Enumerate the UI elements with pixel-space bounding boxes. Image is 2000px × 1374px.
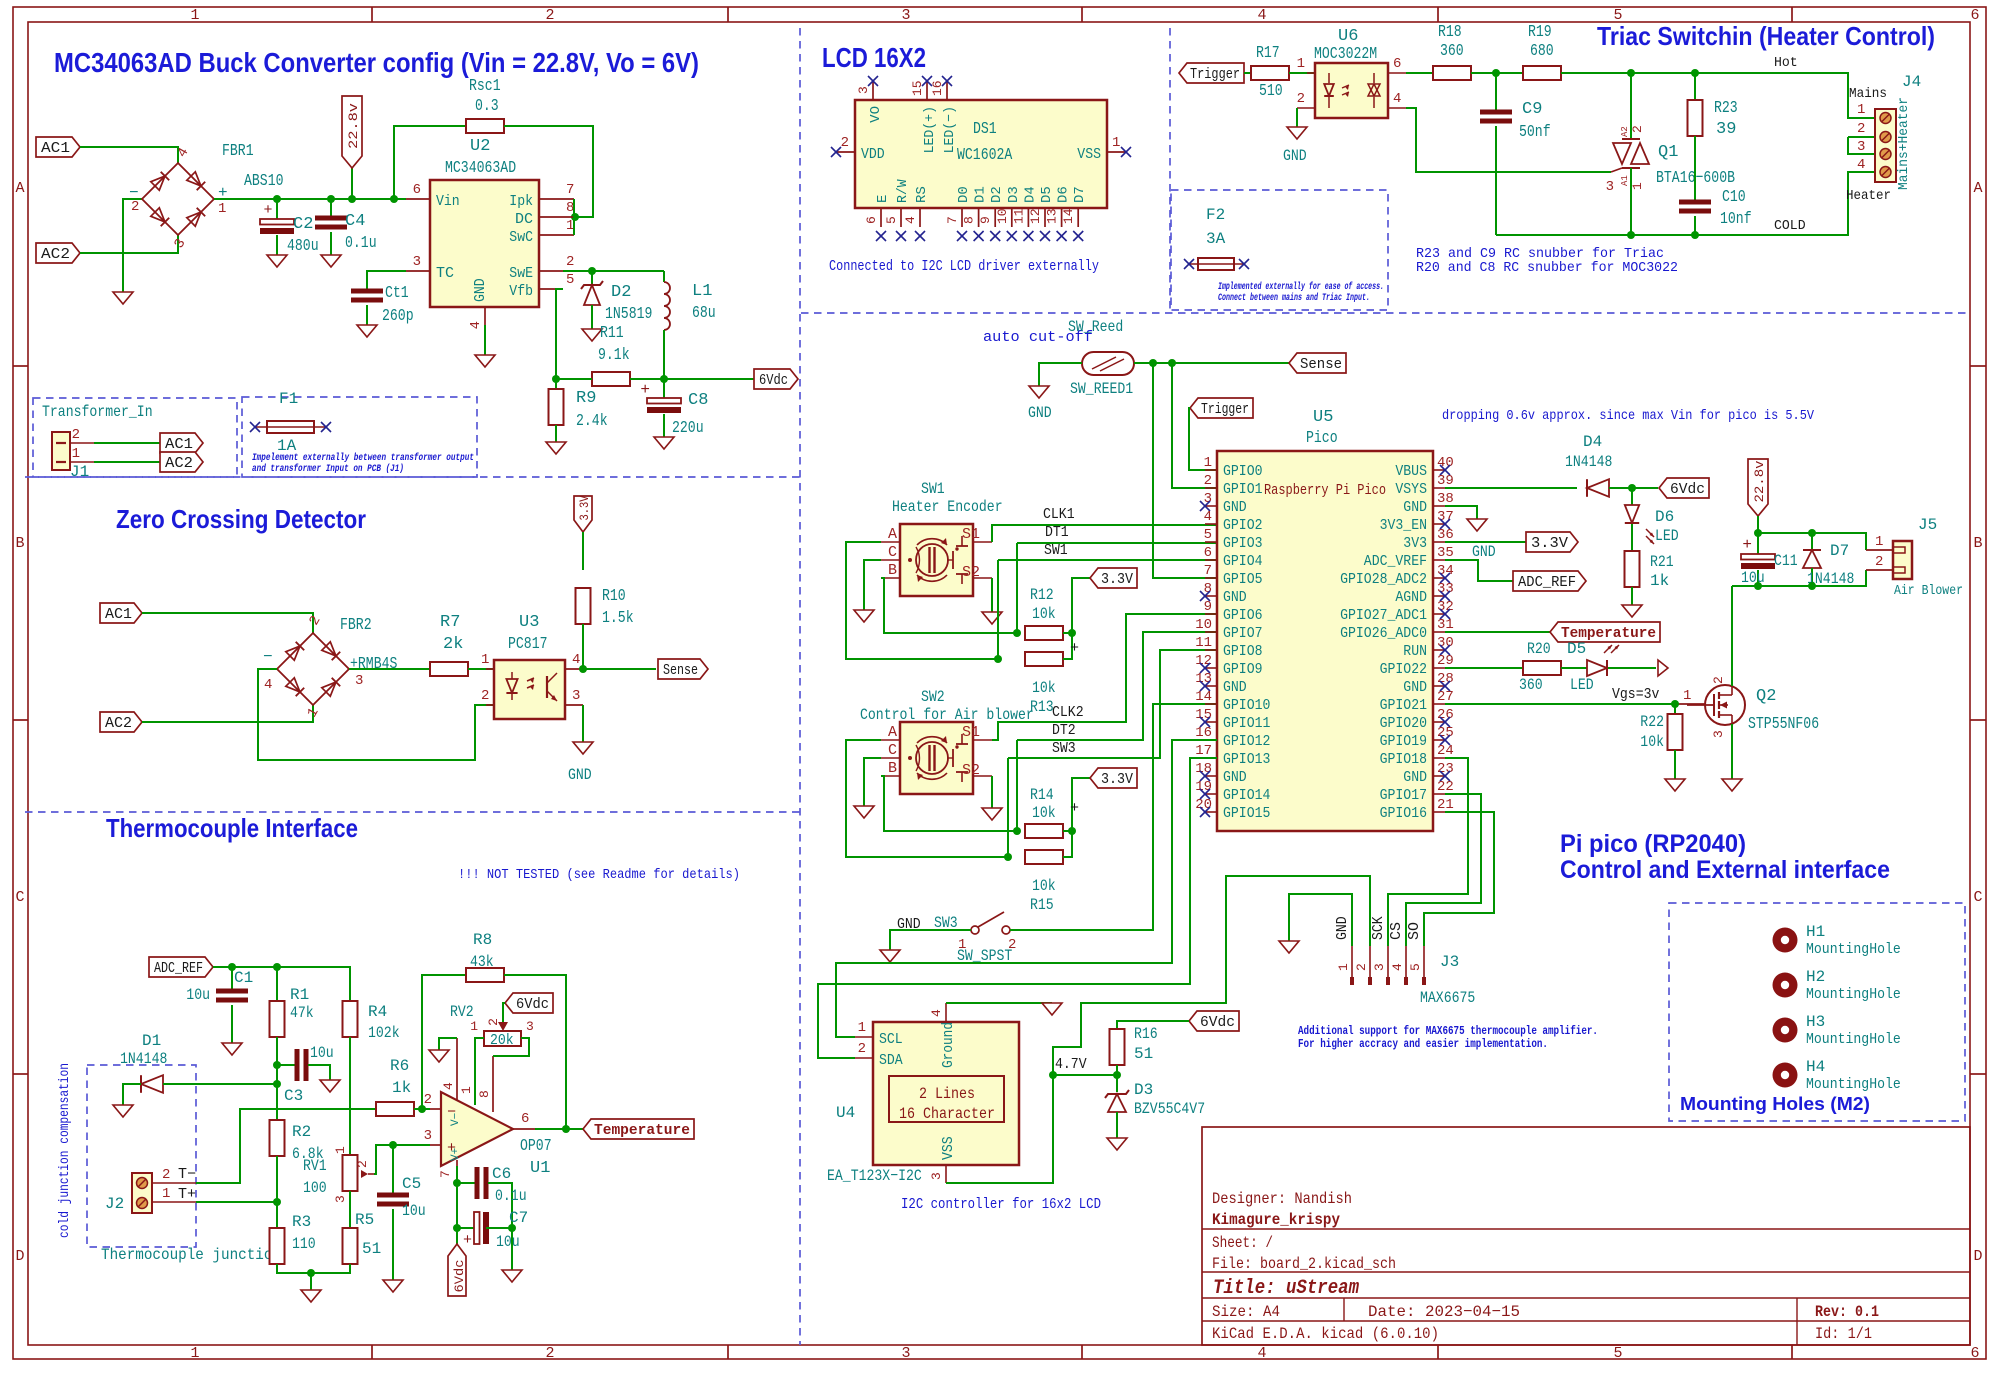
net label 6Vdc buck output [754, 369, 798, 389]
svg-text:LED: LED [1570, 676, 1594, 694]
ground D3 [1107, 1138, 1127, 1150]
svg-text:D: D [1973, 1248, 1982, 1265]
resistor R17 510 [1251, 44, 1289, 101]
wire S2 to gnd sw1 [991, 578, 993, 612]
svg-text:+: + [1742, 536, 1752, 554]
rotary encoder SW2 [860, 688, 1034, 794]
fuse F2 3A [1184, 206, 1249, 270]
svg-text:51: 51 [1134, 1045, 1153, 1063]
svg-text:3: 3 [572, 688, 580, 704]
svg-text:8: 8 [1204, 581, 1212, 597]
ground U4 [1042, 1003, 1062, 1015]
reed switch SW_REED1 [1068, 318, 1134, 398]
svg-text:U5: U5 [1313, 408, 1333, 427]
capacitor C8 220u [640, 379, 708, 438]
svg-text:1: 1 [459, 1086, 474, 1094]
capacitor C7 10u [457, 1209, 528, 1251]
wire DT2 to R14 [1016, 740, 1018, 831]
svg-text:+: + [1070, 640, 1079, 657]
svg-text:2: 2 [1204, 473, 1212, 489]
svg-text:11: 11 [1195, 635, 1212, 651]
svg-text:S1: S1 [962, 526, 980, 543]
svg-text:9.1k: 9.1k [598, 346, 630, 365]
svg-text:10u: 10u [310, 1044, 334, 1062]
ic U6 MOC3022M body [1314, 27, 1388, 118]
wire cold rail [1496, 172, 1875, 235]
wire J3 pin3 sck [1388, 758, 1468, 946]
wire DT1 to R12 [1016, 543, 1018, 633]
svg-text:Transformer_In: Transformer_In [42, 403, 153, 421]
power symbol 22.8v buck [342, 96, 362, 199]
U5 pin 24 GPIO18 [1380, 743, 1454, 768]
svg-text:Id: 1/1: Id: 1/1 [1815, 1325, 1872, 1343]
svg-text:SwC: SwC [509, 229, 533, 246]
svg-text:F1: F1 [279, 390, 298, 408]
U1 pin8 offset [477, 1056, 493, 1112]
wire reed sense net [1134, 362, 1289, 364]
svg-text:8: 8 [477, 1090, 492, 1098]
svg-text:4: 4 [1204, 509, 1212, 525]
svg-text:Connected to I2C LCD driver ex: Connected to I2C LCD driver externally [829, 258, 1099, 275]
svg-text:C: C [888, 742, 897, 759]
dashed box thermocouple junction [87, 1065, 196, 1247]
resistor R6 1k [376, 1057, 414, 1116]
svg-text:Pico: Pico [1306, 429, 1338, 448]
svg-text:31: 31 [1437, 617, 1454, 633]
svg-text:C9: C9 [1522, 100, 1542, 119]
svg-text:6: 6 [1970, 7, 1979, 24]
svg-text:16 Character: 16 Character [899, 1105, 995, 1123]
svg-text:6: 6 [521, 1111, 529, 1127]
svg-text:SW_Reed: SW_Reed [1068, 318, 1123, 336]
svg-text:R20: R20 [1527, 640, 1551, 658]
svg-text:4: 4 [468, 321, 484, 329]
svg-text:1k: 1k [1650, 572, 1669, 590]
svg-text:SW3: SW3 [1052, 740, 1076, 757]
U5 pin 1 GPIO0 [1204, 455, 1263, 480]
svg-text:3: 3 [1372, 963, 1387, 971]
resistor Rsc1 0.3 [466, 77, 504, 133]
zener diode D2 1N5819 [581, 271, 652, 329]
svg-text:2: 2 [72, 427, 80, 443]
wire AC1 to bridge [80, 147, 178, 163]
resistor R11 9.1k [556, 324, 664, 386]
svg-text:VSYS: VSYS [1395, 481, 1427, 498]
svg-text:1.5k: 1.5k [602, 609, 634, 628]
svg-text:AC2: AC2 [165, 455, 193, 472]
svg-text:50nf: 50nf [1519, 123, 1551, 142]
capacitor C1 10u [186, 967, 253, 1043]
svg-text:16: 16 [1195, 725, 1212, 741]
svg-text:C: C [15, 889, 24, 906]
power symbol 6Vdc opamp [448, 1244, 467, 1296]
net label AC1 zcd [100, 603, 142, 623]
svg-text:GND: GND [1472, 543, 1496, 561]
svg-text:SW2: SW2 [921, 688, 945, 706]
svg-text:AGND: AGND [1395, 589, 1427, 606]
svg-text:!!! NOT TESTED (see Readme for: !!! NOT TESTED (see Readme for details) [458, 867, 740, 883]
svg-text:SW1: SW1 [1044, 542, 1068, 559]
junction R14 left [1013, 827, 1021, 835]
ground SW1 C [854, 610, 874, 622]
svg-text:SW_REED1: SW_REED1 [1070, 380, 1133, 398]
U2 pin5 Vfb [509, 272, 574, 300]
svg-text:KiCad E.D.A. kicad (6.0.10): KiCad E.D.A. kicad (6.0.10) [1212, 1325, 1439, 1343]
svg-text:D3: D3 [1134, 1081, 1153, 1099]
ic U4 EA_T123X-I2C body [827, 1022, 1019, 1185]
svg-text:H4: H4 [1806, 1058, 1825, 1076]
junction reed gpio5 branch [1149, 359, 1157, 367]
svg-text:D2: D2 [611, 283, 631, 302]
junction Q1 bottom [1627, 231, 1635, 239]
U5 pin 25 GPIO19 [1380, 725, 1454, 750]
DS1 pin D5 [1028, 186, 1055, 241]
svg-text:R12: R12 [1030, 586, 1054, 604]
svg-text:Title: uStream: Title: uStream [1213, 1277, 1359, 1300]
svg-text:0.3: 0.3 [475, 97, 499, 116]
svg-text:3V3_EN: 3V3_EN [1380, 517, 1427, 534]
U3 internal led and transistor [506, 672, 557, 701]
svg-text:GPIO15: GPIO15 [1223, 805, 1270, 822]
svg-text:3: 3 [856, 86, 871, 94]
svg-text:1N4148: 1N4148 [120, 1050, 167, 1068]
svg-text:10nf: 10nf [1720, 210, 1752, 229]
wire Vin to Rsc1 [394, 126, 466, 199]
svg-text:2k: 2k [443, 635, 463, 654]
svg-text:S1: S1 [962, 724, 980, 741]
wire A to R15 [846, 740, 1008, 857]
ground U1 pin4 [429, 1050, 449, 1062]
svg-text:+: + [263, 202, 272, 219]
junction sense node [579, 665, 587, 673]
svg-text:C3: C3 [284, 1087, 303, 1105]
svg-text:10u: 10u [402, 1202, 426, 1220]
zener diode D3 BZV55C4V7 [1105, 1075, 1205, 1138]
svg-text:C8: C8 [688, 391, 708, 410]
U1 pin4 V- [441, 1038, 457, 1100]
junction C3 top [273, 1061, 281, 1069]
U5 pin 35 ADC_VREF [1364, 545, 1454, 570]
svg-text:4: 4 [264, 677, 272, 693]
svg-text:MC34063AD: MC34063AD [445, 159, 516, 178]
svg-text:3: 3 [333, 1195, 348, 1203]
svg-text:3: 3 [1606, 179, 1614, 195]
U5 pin 6 GPIO4 [1204, 545, 1263, 570]
svg-text:V−: V− [450, 1113, 462, 1126]
svg-text:WC1602A: WC1602A [957, 146, 1013, 165]
svg-text:14: 14 [1195, 689, 1212, 705]
net label Trigger triac [1179, 63, 1244, 83]
svg-text:Vin: Vin [436, 193, 460, 210]
svg-text:6: 6 [413, 182, 421, 198]
wire T+ to divider [196, 1201, 277, 1203]
wire S1 to CLK2 [992, 614, 1217, 740]
svg-text:H3: H3 [1806, 1013, 1825, 1031]
svg-text:GND: GND [1403, 679, 1427, 696]
svg-text:Sense: Sense [1300, 356, 1342, 373]
wire R7 to U3 [468, 668, 494, 670]
svg-text:260p: 260p [382, 307, 414, 326]
ground Q2 [1722, 779, 1742, 791]
svg-text:1: 1 [1857, 102, 1865, 118]
wire R8 feedback right [504, 975, 566, 1129]
svg-text:C10: C10 [1722, 188, 1746, 207]
svg-text:SW1: SW1 [921, 480, 945, 498]
DS1 pin D1 [962, 186, 989, 241]
svg-text:D7: D7 [1072, 186, 1088, 203]
wire main input rail [214, 198, 406, 200]
wire U6 pin2 gnd [1296, 108, 1298, 127]
net label ADC_REF pico [1513, 571, 1586, 591]
svg-text:DC: DC [515, 211, 533, 228]
svg-text:C1: C1 [234, 969, 253, 987]
svg-text:39: 39 [1716, 120, 1736, 139]
U5 pin 14 GPIO10 [1195, 689, 1270, 714]
svg-text:1: 1 [190, 7, 199, 24]
svg-text:Rev: 0.1: Rev: 0.1 [1815, 1303, 1879, 1321]
svg-text:11: 11 [1011, 208, 1026, 224]
svg-text:Size: A4: Size: A4 [1212, 1303, 1280, 1321]
resistor R13 10k [1025, 652, 1063, 716]
wire pin31 temperature [1445, 631, 1550, 633]
ground C1 [222, 1043, 242, 1055]
svg-text:10k: 10k [1032, 877, 1056, 895]
U5 pin 21 GPIO16 [1380, 797, 1454, 822]
U5 pin 10 GPIO7 [1195, 617, 1262, 642]
svg-text:Kimagure_krispy: Kimagure_krispy [1212, 1211, 1340, 1229]
DS1 pin D0 [945, 186, 972, 241]
junction adcref R1 [273, 963, 281, 971]
ground R9 [546, 442, 566, 454]
U5 pin 12 GPIO9 [1195, 653, 1262, 678]
svg-text:D6: D6 [1655, 508, 1674, 526]
svg-text:B: B [1973, 535, 1982, 552]
U5 pin 20 GPIO15 [1195, 797, 1270, 822]
svg-text:2: 2 [162, 1167, 170, 1183]
svg-text:+RMB4S: +RMB4S [350, 655, 397, 674]
svg-text:V+: V+ [450, 1148, 462, 1161]
svg-text:4: 4 [1390, 963, 1405, 971]
svg-text:R3: R3 [292, 1213, 311, 1231]
svg-text:Hot: Hot [1774, 55, 1798, 71]
junction C10 bottom [1691, 231, 1699, 239]
svg-text:1k: 1k [392, 1079, 411, 1097]
svg-text:File: board_2.kicad_sch: File: board_2.kicad_sch [1212, 1255, 1396, 1273]
svg-text:Sheet: /: Sheet: / [1212, 1234, 1273, 1252]
net label Sense zcd [658, 659, 708, 679]
junction D7 bottom [1808, 582, 1816, 590]
svg-text:2: 2 [1875, 554, 1883, 570]
svg-text:360: 360 [1440, 42, 1464, 61]
wire pin4 gnd [439, 1038, 457, 1050]
svg-text:Ipk: Ipk [509, 193, 533, 210]
diode D1 1N4148 [120, 1032, 277, 1105]
svg-text:13: 13 [1045, 208, 1060, 224]
svg-text:GPIO7: GPIO7 [1223, 625, 1263, 642]
svg-text:39: 39 [1437, 473, 1454, 489]
svg-text:102k: 102k [368, 1024, 400, 1042]
svg-text:MountingHole: MountingHole [1806, 1076, 1901, 1093]
ground D1 [113, 1105, 133, 1117]
wire pin36 3v3 [1445, 541, 1526, 543]
wire U2 gnd [484, 325, 486, 355]
svg-text:AC2: AC2 [41, 246, 70, 263]
svg-text:RV1: RV1 [303, 1157, 327, 1175]
junction R13 left [994, 655, 1002, 663]
U2 pin7 Ipk [509, 182, 574, 210]
svg-text:Thermocouple Interface: Thermocouple Interface [106, 813, 358, 843]
U5 pin 34 GPIO28_ADC2 [1340, 563, 1454, 588]
svg-text:A: A [15, 180, 24, 197]
svg-text:R6: R6 [390, 1057, 409, 1075]
ground pico pin38 [1467, 519, 1487, 531]
junction R12 left [1013, 629, 1021, 637]
svg-text:220u: 220u [672, 419, 704, 438]
bridge rectifier FBR1 [129, 145, 228, 251]
svg-text:C6: C6 [492, 1165, 511, 1183]
wire pin29 to R20 [1445, 667, 1523, 669]
ground SW2 C [854, 806, 874, 818]
svg-text:J4: J4 [1902, 73, 1921, 91]
U5 pin 13 GND [1195, 671, 1247, 696]
svg-text:GND: GND [1223, 589, 1247, 606]
svg-text:A: A [1973, 180, 1982, 197]
svg-text:2: 2 [481, 688, 489, 704]
svg-text:STP55NF06: STP55NF06 [1748, 715, 1819, 734]
svg-text:VBUS: VBUS [1395, 463, 1427, 480]
wire Vfb down [556, 289, 563, 379]
wire 6Vdc to RV2 wiper [498, 1003, 508, 1031]
svg-text:10: 10 [995, 208, 1010, 224]
svg-text:12: 12 [1028, 208, 1043, 224]
svg-text:C11: C11 [1774, 552, 1798, 570]
svg-text:Heater Encoder: Heater Encoder [892, 498, 1003, 516]
svg-text:AC1: AC1 [41, 140, 70, 157]
svg-text:dropping 0.6v approx. since ma: dropping 0.6v approx. since max Vin for … [1442, 408, 1815, 424]
DS1 pin D3 [995, 186, 1022, 241]
net label AC2 zcd [100, 712, 142, 732]
resistor R20 360 [1519, 640, 1561, 694]
connector J5 air blower [1866, 516, 1963, 599]
svg-text:GPIO12: GPIO12 [1223, 733, 1270, 750]
svg-text:D5: D5 [1567, 640, 1586, 658]
wire trigger to R17 [1244, 72, 1251, 74]
svg-text:2: 2 [841, 135, 849, 151]
svg-text:AC1: AC1 [165, 436, 193, 453]
wire pin35 adcvref [1445, 560, 1513, 581]
DS1 pin3 VO [856, 76, 884, 123]
ic U3 PC817 body [494, 613, 565, 719]
svg-text:D6: D6 [1056, 186, 1072, 203]
U6 pin4 [1388, 91, 1406, 108]
wire J3 pin5 so [1424, 812, 1494, 946]
svg-text:GPIO27_ADC1: GPIO27_ADC1 [1340, 607, 1427, 624]
DS1 pin2 VDD [831, 135, 885, 163]
capacitor Ct1 260p [351, 271, 414, 326]
svg-text:Date: 2023−04−15: Date: 2023−04−15 [1368, 1303, 1520, 1321]
svg-text:6: 6 [1970, 1345, 1979, 1362]
svg-text:2: 2 [566, 254, 574, 270]
svg-text:3: 3 [413, 254, 421, 270]
svg-text:68u: 68u [692, 304, 716, 323]
resistor R3 110 [270, 1213, 316, 1264]
net label ADC_REF thermo [149, 957, 213, 977]
svg-text:R23: R23 [1714, 99, 1738, 118]
svg-text:R16: R16 [1134, 1025, 1158, 1043]
wire R20 to D5 [1561, 667, 1587, 669]
svg-text:10k: 10k [1032, 804, 1056, 822]
svg-text:GPIO5: GPIO5 [1223, 571, 1263, 588]
svg-text:1: 1 [1683, 688, 1691, 704]
svg-text:−: − [129, 184, 139, 202]
svg-text:+: + [1070, 800, 1079, 817]
U2 pin1 SwC [509, 218, 574, 246]
wire C to gnd sw1 [864, 560, 881, 610]
junction C9 node [1492, 69, 1500, 77]
svg-text:Vgs=3v: Vgs=3v [1612, 686, 1659, 703]
U4 pin2 SDA [855, 1041, 903, 1069]
wire U3 pin3 gnd [582, 705, 584, 742]
svg-text:Raspberry Pi Pico: Raspberry Pi Pico [1264, 482, 1386, 499]
svg-text:GPIO2: GPIO2 [1223, 517, 1263, 534]
svg-text:GPIO8: GPIO8 [1223, 643, 1263, 660]
svg-text:R19: R19 [1528, 23, 1552, 42]
svg-text:B: B [15, 535, 24, 552]
title block frame [1202, 1127, 1970, 1345]
capacitor C2 480u [260, 199, 319, 256]
ground SW1 S2 [982, 612, 1002, 624]
junction R15 left [1004, 853, 1012, 861]
wire sense to gpio5 [1153, 363, 1217, 578]
svg-text:FBR1: FBR1 [222, 142, 254, 161]
svg-text:22: 22 [1437, 779, 1454, 795]
junction D1 node [273, 1080, 281, 1088]
wire SW1 to R13 [997, 560, 999, 659]
svg-text:GND: GND [1403, 499, 1427, 516]
svg-text:3.3V: 3.3V [1101, 771, 1133, 788]
svg-text:A2: A2 [1620, 126, 1630, 137]
svg-text:R1: R1 [290, 986, 309, 1004]
svg-text:GND: GND [1223, 499, 1247, 516]
svg-text:Sense: Sense [663, 662, 698, 679]
junction C7 node [453, 1224, 461, 1232]
svg-text:LED(+): LED(+) [922, 106, 938, 153]
svg-text:D0: D0 [956, 186, 972, 203]
svg-text:J3: J3 [1440, 953, 1459, 971]
U6 internal optotriac [1324, 73, 1380, 108]
junction bottom divider [307, 1269, 315, 1277]
wire SW3 to R15 junction [1007, 758, 1009, 857]
junction rail C2 [273, 195, 281, 203]
svg-text:GND: GND [1283, 147, 1307, 165]
svg-text:MountingHole: MountingHole [1806, 1031, 1901, 1048]
svg-text:SO: SO [1406, 922, 1423, 940]
wire C7 gnd [511, 1228, 513, 1270]
svg-text:21: 21 [1437, 797, 1454, 813]
svg-text:1: 1 [1336, 963, 1351, 971]
svg-text:A: A [888, 526, 897, 543]
wire pin7 down [456, 1166, 458, 1244]
wire Q2 source gnd [1731, 724, 1733, 779]
junction C11 bottom [1754, 582, 1762, 590]
svg-text:R15: R15 [1030, 896, 1054, 914]
power symbol 3.3V zcd [574, 495, 592, 570]
resistor R23 39 [1688, 73, 1738, 200]
svg-text:3A: 3A [1206, 230, 1226, 248]
wire bottom rail j5 [1732, 570, 1866, 586]
wire R8 feedback left [422, 975, 466, 1109]
U2 pin6 Vin [406, 182, 460, 210]
